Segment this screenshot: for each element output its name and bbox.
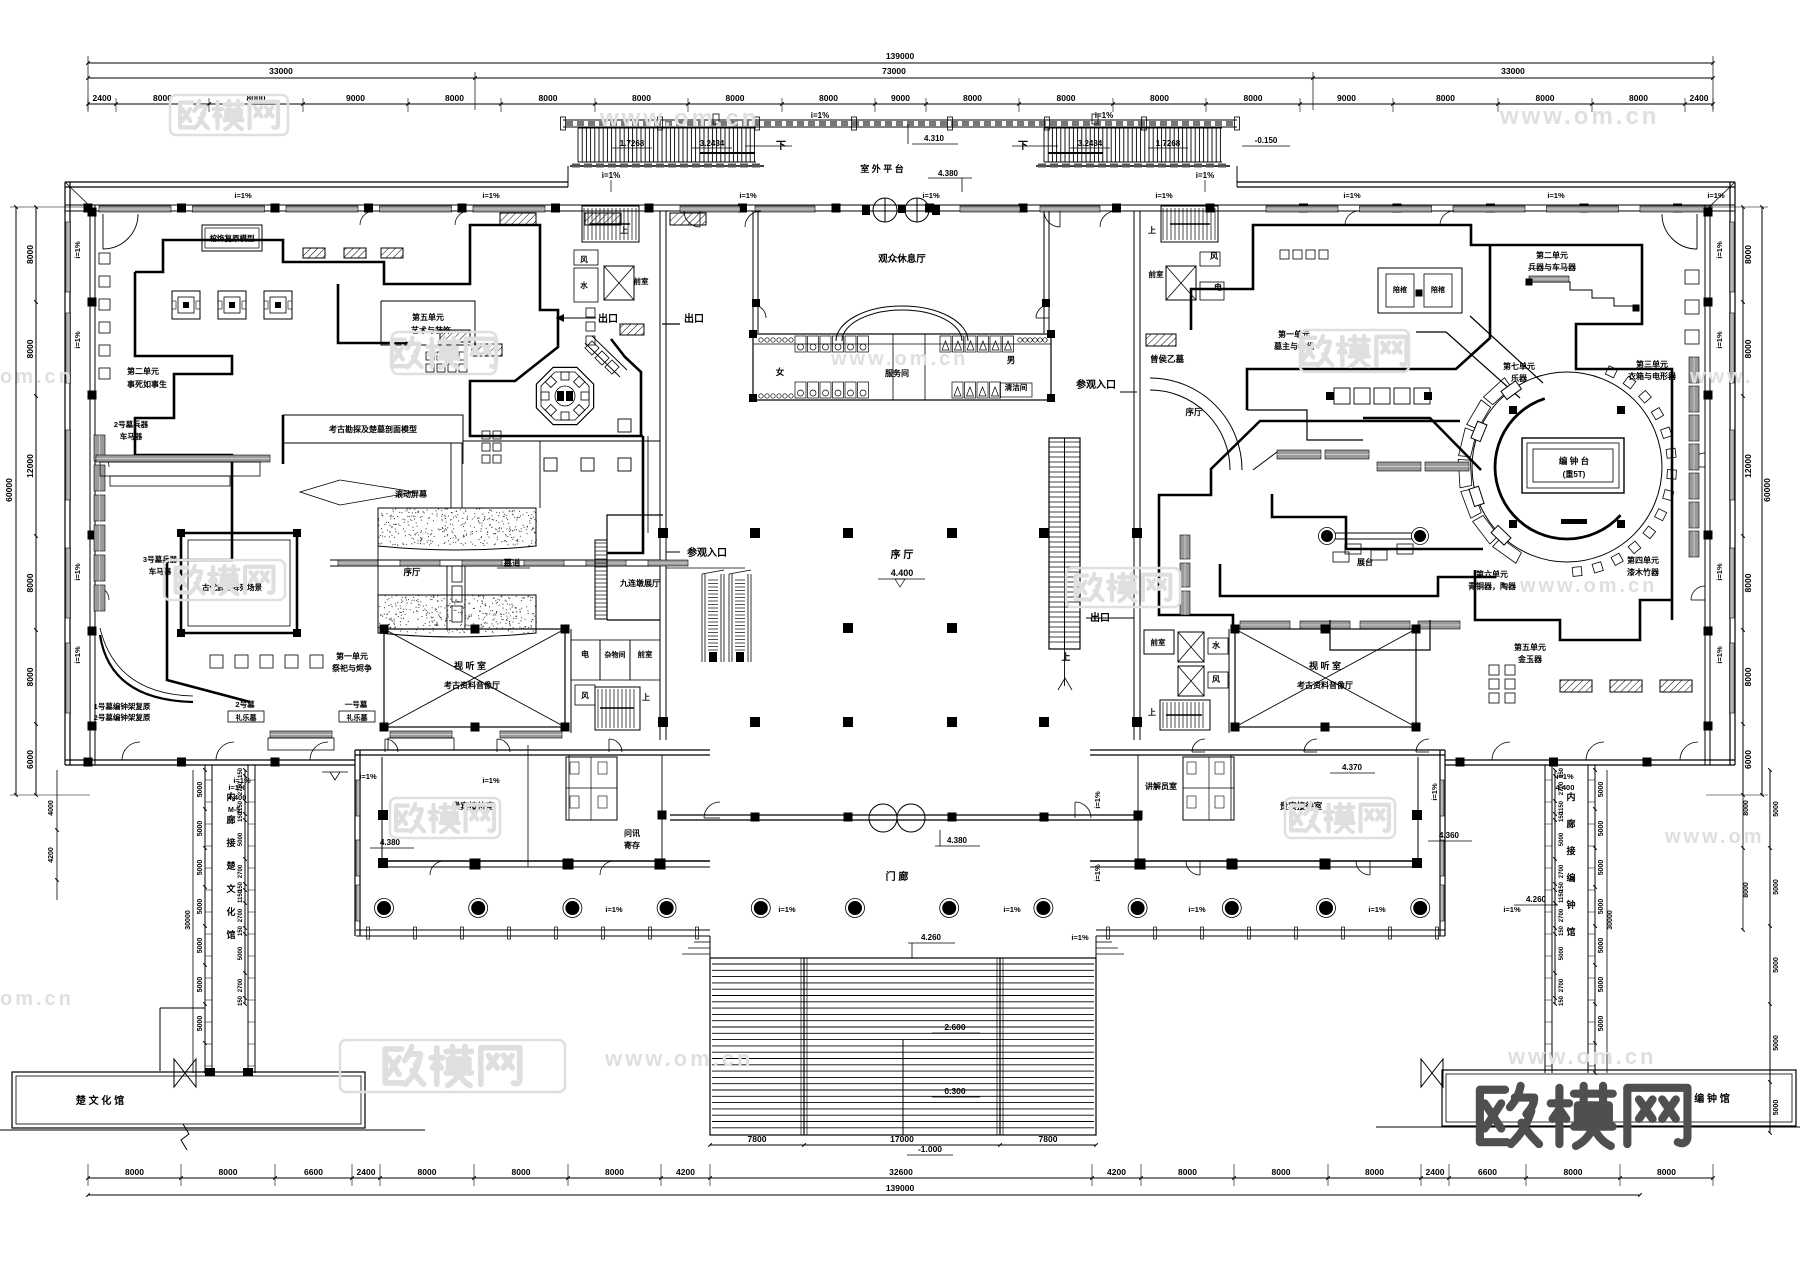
svg-text:om.cn: om.cn — [0, 988, 74, 1010]
svg-text:5000: 5000 — [1598, 938, 1605, 954]
svg-text:8000: 8000 — [445, 93, 464, 103]
svg-text:i=1%: i=1% — [1003, 905, 1021, 914]
svg-text:2700: 2700 — [238, 978, 244, 992]
svg-text:i=1%: i=1% — [1093, 791, 1102, 809]
svg-text:i=1%: i=1% — [234, 191, 252, 200]
svg-text:2400: 2400 — [93, 93, 112, 103]
svg-text:i=1%: i=1% — [1071, 933, 1089, 942]
svg-text:5000: 5000 — [1598, 860, 1605, 876]
svg-text:编 钟 台: 编 钟 台 — [1559, 456, 1590, 466]
svg-text:5000: 5000 — [238, 946, 244, 960]
svg-text:www.om.cn: www.om.cn — [1499, 103, 1659, 130]
svg-text:车马器: 车马器 — [120, 431, 143, 441]
svg-text:视 听 室: 视 听 室 — [454, 660, 486, 671]
svg-text:馆: 馆 — [1566, 926, 1575, 937]
svg-text:第五单元: 第五单元 — [412, 312, 444, 322]
svg-text:i=1%: i=1% — [1715, 241, 1724, 259]
svg-text:金玉器: 金玉器 — [1517, 654, 1543, 664]
svg-text:寄存: 寄存 — [624, 840, 640, 850]
svg-text:2700: 2700 — [1559, 978, 1565, 992]
svg-text:i=1%: i=1% — [1715, 646, 1724, 664]
svg-text:电: 电 — [581, 649, 589, 659]
svg-text:前室: 前室 — [1151, 637, 1167, 647]
svg-text:一号墓: 一号墓 — [345, 699, 368, 709]
svg-text:考古资料音像厅: 考古资料音像厅 — [444, 680, 500, 690]
svg-text:139000: 139000 — [886, 51, 915, 61]
svg-text:i=1%: i=1% — [1556, 772, 1574, 781]
svg-text:4.360: 4.360 — [1439, 831, 1460, 840]
svg-text:内: 内 — [1566, 791, 1575, 802]
svg-text:9000: 9000 — [891, 93, 910, 103]
svg-text:兵器与车马器: 兵器与车马器 — [1528, 262, 1577, 272]
svg-text:8000: 8000 — [1743, 245, 1753, 264]
svg-text:上: 上 — [1148, 707, 1156, 717]
svg-text:8000: 8000 — [1536, 93, 1555, 103]
svg-text:5000: 5000 — [1598, 899, 1605, 915]
svg-text:i=1%: i=1% — [1715, 331, 1724, 349]
svg-text:8000: 8000 — [1743, 800, 1750, 816]
svg-text:水: 水 — [580, 280, 588, 290]
svg-text:接: 接 — [1566, 845, 1575, 856]
svg-text:1号墓编钟架复原: 1号墓编钟架复原 — [94, 701, 151, 711]
svg-text:风: 风 — [1210, 252, 1218, 261]
svg-text:i=1%: i=1% — [73, 241, 82, 259]
svg-text:馆: 馆 — [226, 929, 235, 940]
svg-text:5000: 5000 — [197, 782, 204, 798]
svg-text:www.: www. — [1689, 366, 1753, 388]
svg-text:i=1%: i=1% — [778, 905, 796, 914]
svg-text:60000: 60000 — [4, 478, 14, 502]
svg-text:4.400: 4.400 — [1556, 783, 1575, 792]
svg-text:33000: 33000 — [269, 66, 293, 76]
svg-text:1.7268: 1.7268 — [620, 139, 645, 148]
svg-text:i=1%: i=1% — [482, 191, 500, 200]
svg-text:钟: 钟 — [1566, 899, 1575, 910]
svg-text:棺饰复原模型: 棺饰复原模型 — [210, 233, 255, 243]
svg-text:4.400: 4.400 — [228, 793, 247, 802]
svg-text:8000: 8000 — [512, 1167, 531, 1177]
svg-text:5000: 5000 — [1559, 946, 1565, 960]
svg-text:第二单元: 第二单元 — [127, 366, 159, 376]
svg-text:i=1%: i=1% — [811, 111, 829, 120]
svg-text:om.cn: om.cn — [0, 366, 74, 388]
svg-text:接: 接 — [226, 837, 235, 848]
svg-text:(重5T): (重5T) — [1563, 469, 1586, 479]
svg-text:8000: 8000 — [1564, 1167, 1583, 1177]
svg-text:i=1%: i=1% — [1430, 783, 1439, 801]
svg-text:上: 上 — [642, 692, 650, 702]
svg-text:8000: 8000 — [1743, 882, 1750, 898]
svg-text:清洁间: 清洁间 — [1005, 382, 1028, 392]
svg-text:6000: 6000 — [1743, 750, 1753, 769]
svg-text:5000: 5000 — [197, 899, 204, 915]
svg-text:礼乐墓: 礼乐墓 — [236, 713, 258, 722]
svg-text:室 外 平 台: 室 外 平 台 — [860, 163, 904, 174]
svg-text:i=1%: i=1% — [1095, 111, 1113, 120]
svg-text:1150: 1150 — [1559, 889, 1565, 903]
svg-text:8000: 8000 — [25, 573, 35, 592]
svg-text:150: 150 — [1559, 995, 1565, 1006]
svg-text:上: 上 — [1061, 651, 1070, 662]
svg-text:2.600: 2.600 — [944, 1022, 966, 1032]
svg-text:8000: 8000 — [1178, 1167, 1197, 1177]
svg-text:第七单元: 第七单元 — [1503, 361, 1535, 371]
svg-text:73000: 73000 — [882, 66, 906, 76]
svg-text:30000: 30000 — [185, 910, 192, 930]
svg-text:5000: 5000 — [1773, 801, 1780, 817]
svg-text:滚动屏幕: 滚动屏幕 — [395, 489, 428, 499]
svg-text:8000: 8000 — [1629, 93, 1648, 103]
svg-text:60000: 60000 — [1762, 478, 1772, 502]
svg-text:第四单元: 第四单元 — [1627, 555, 1659, 565]
svg-text:8000: 8000 — [25, 667, 35, 686]
svg-text:2400: 2400 — [1426, 1167, 1445, 1177]
svg-text:1150: 1150 — [238, 889, 244, 903]
svg-text:8000: 8000 — [1057, 93, 1076, 103]
svg-text:8000: 8000 — [1244, 93, 1263, 103]
svg-text:男: 男 — [1007, 355, 1016, 365]
svg-text:5000: 5000 — [1598, 977, 1605, 993]
svg-text:9000: 9000 — [346, 93, 365, 103]
svg-text:8000: 8000 — [963, 93, 982, 103]
svg-text:i=1%: i=1% — [482, 776, 500, 785]
svg-text:参观入口: 参观入口 — [1076, 378, 1116, 391]
svg-text:考古资料音像厅: 考古资料音像厅 — [1297, 680, 1353, 690]
svg-text:12000: 12000 — [25, 454, 35, 478]
svg-text:8000: 8000 — [1657, 1167, 1676, 1177]
svg-text:i=1%: i=1% — [1093, 864, 1102, 882]
svg-text:9000: 9000 — [1337, 93, 1356, 103]
svg-text:i=1%: i=1% — [73, 646, 82, 664]
svg-text:8000: 8000 — [605, 1167, 624, 1177]
svg-text:讲解员室: 讲解员室 — [1145, 781, 1177, 791]
svg-text:杂物间: 杂物间 — [605, 650, 626, 659]
svg-text:2700: 2700 — [1559, 908, 1565, 922]
svg-text:i=1%: i=1% — [1196, 171, 1214, 180]
svg-text:2700: 2700 — [1559, 864, 1565, 878]
svg-text:8000: 8000 — [125, 1167, 144, 1177]
svg-text:30000: 30000 — [1607, 910, 1614, 930]
svg-text:第一单元: 第一单元 — [336, 651, 368, 661]
svg-text:8000: 8000 — [418, 1167, 437, 1177]
svg-text:150: 150 — [1559, 811, 1565, 822]
svg-text:上: 上 — [620, 225, 628, 235]
svg-text:上: 上 — [1148, 225, 1156, 235]
svg-text:廊: 廊 — [226, 814, 235, 825]
svg-text:陪棺: 陪棺 — [1431, 285, 1445, 294]
svg-text:4.380: 4.380 — [938, 169, 959, 178]
svg-text:问讯: 问讯 — [624, 828, 640, 838]
svg-text:0.300: 0.300 — [944, 1086, 966, 1096]
svg-text:观众休息厅: 观众休息厅 — [877, 253, 926, 265]
svg-text:2700: 2700 — [238, 864, 244, 878]
svg-text:风: 风 — [1212, 675, 1220, 684]
svg-text:5000: 5000 — [1598, 821, 1605, 837]
svg-text:8000: 8000 — [539, 93, 558, 103]
svg-text:5000: 5000 — [1773, 1100, 1780, 1116]
svg-text:风: 风 — [581, 691, 589, 700]
svg-text:3.2434: 3.2434 — [700, 139, 725, 148]
svg-text:i=1%: i=1% — [605, 905, 623, 914]
svg-text:4.380: 4.380 — [947, 836, 968, 845]
svg-text:2号墓兵器: 2号墓兵器 — [114, 419, 149, 429]
svg-text:4.370: 4.370 — [1342, 763, 1363, 772]
svg-text:九连墩展厅: 九连墩展厅 — [619, 578, 660, 588]
svg-text:-1.000: -1.000 — [918, 1144, 942, 1154]
svg-text:5000: 5000 — [1773, 957, 1780, 973]
svg-text:参观入口: 参观入口 — [687, 546, 727, 559]
svg-text:8000: 8000 — [1743, 667, 1753, 686]
svg-text:第二单元: 第二单元 — [1536, 250, 1568, 260]
svg-text:2700: 2700 — [238, 908, 244, 922]
svg-text:陪棺: 陪棺 — [1393, 285, 1407, 294]
svg-text:楚: 楚 — [225, 860, 236, 871]
svg-text:5000: 5000 — [197, 860, 204, 876]
svg-text:5000: 5000 — [1598, 782, 1605, 798]
svg-text:i=1%: i=1% — [228, 783, 246, 792]
svg-text:i=1%: i=1% — [1547, 191, 1565, 200]
svg-text:4000: 4000 — [48, 800, 55, 816]
svg-text:5000: 5000 — [1559, 832, 1565, 846]
svg-text:www.om.cn: www.om.cn — [1519, 575, 1657, 597]
svg-text:出口: 出口 — [598, 312, 618, 325]
svg-text:5000: 5000 — [238, 832, 244, 846]
svg-text:i=1%: i=1% — [602, 171, 620, 180]
svg-text:8000: 8000 — [1743, 573, 1753, 592]
svg-text:门 廊: 门 廊 — [886, 870, 909, 883]
svg-text:2号墓: 2号墓 — [235, 699, 255, 709]
svg-text:文: 文 — [225, 883, 236, 894]
svg-text:女: 女 — [776, 367, 785, 377]
svg-text:2400: 2400 — [1690, 93, 1709, 103]
svg-text:5000: 5000 — [197, 977, 204, 993]
svg-text:前室: 前室 — [1149, 269, 1165, 279]
svg-text:出口: 出口 — [684, 312, 704, 325]
svg-text:4.380: 4.380 — [380, 838, 401, 847]
svg-text:4.400: 4.400 — [891, 568, 914, 578]
svg-text:4.310: 4.310 — [924, 134, 945, 143]
svg-text:曾侯乙墓: 曾侯乙墓 — [1150, 354, 1185, 364]
svg-text:事死如事生: 事死如事生 — [127, 379, 167, 389]
svg-text:8000: 8000 — [1150, 93, 1169, 103]
svg-text:风: 风 — [580, 255, 588, 264]
svg-text:4200: 4200 — [48, 847, 55, 863]
svg-text:8000: 8000 — [632, 93, 651, 103]
svg-text:编 钟 馆: 编 钟 馆 — [1694, 1092, 1730, 1105]
svg-text:第三单元: 第三单元 — [1636, 359, 1668, 369]
svg-text:8000: 8000 — [1365, 1167, 1384, 1177]
svg-text:i=1%: i=1% — [1155, 191, 1173, 200]
svg-text:8000: 8000 — [819, 93, 838, 103]
svg-text:1150: 1150 — [1559, 800, 1565, 814]
svg-text:第五单元: 第五单元 — [1514, 642, 1546, 652]
svg-text:5000: 5000 — [1598, 1016, 1605, 1032]
svg-text:M-5: M-5 — [228, 807, 240, 814]
svg-text:8000: 8000 — [1272, 1167, 1291, 1177]
svg-text:8000: 8000 — [219, 1167, 238, 1177]
svg-text:i=1%: i=1% — [922, 191, 940, 200]
svg-text:150: 150 — [238, 925, 244, 936]
svg-text:序 厅: 序 厅 — [891, 548, 914, 561]
svg-text:i=1%: i=1% — [1707, 191, 1725, 200]
svg-text:电: 电 — [1214, 282, 1222, 292]
svg-text:第六单元: 第六单元 — [1476, 569, 1508, 579]
svg-text:www.om.cn: www.om.cn — [604, 1046, 753, 1071]
svg-text:4.260: 4.260 — [1526, 895, 1547, 904]
svg-text:8000: 8000 — [25, 245, 35, 264]
svg-text:4200: 4200 — [676, 1167, 695, 1177]
svg-text:i=1%: i=1% — [73, 331, 82, 349]
svg-text:前室: 前室 — [638, 649, 653, 659]
svg-text:www.om.cn: www.om.cn — [830, 348, 968, 370]
svg-text:150: 150 — [238, 995, 244, 1006]
svg-text:展台: 展台 — [1356, 557, 1373, 567]
svg-text:6600: 6600 — [1478, 1167, 1497, 1177]
svg-text:i=1%: i=1% — [73, 563, 82, 581]
svg-text:5000: 5000 — [1773, 879, 1780, 895]
svg-text:4.260: 4.260 — [921, 933, 942, 942]
svg-text:150: 150 — [1559, 925, 1565, 936]
svg-text:5000: 5000 — [197, 1016, 204, 1032]
svg-text:3.2434: 3.2434 — [1078, 139, 1103, 148]
svg-text:水: 水 — [1211, 640, 1221, 650]
svg-text:i=1%: i=1% — [1368, 905, 1386, 914]
svg-text:8000: 8000 — [25, 339, 35, 358]
svg-text:化: 化 — [226, 906, 235, 917]
svg-text:www.om: www.om — [1664, 826, 1764, 848]
svg-text:12000: 12000 — [1743, 454, 1753, 478]
svg-text:序厅: 序厅 — [402, 567, 421, 577]
svg-text:8000: 8000 — [726, 93, 745, 103]
svg-text:2400: 2400 — [357, 1167, 376, 1177]
svg-text:6000: 6000 — [25, 750, 35, 769]
svg-text:衣箱与电形器: 衣箱与电形器 — [1628, 371, 1677, 381]
svg-text:i=1%: i=1% — [1715, 563, 1724, 581]
svg-text:32600: 32600 — [889, 1167, 913, 1177]
svg-text:i=1%: i=1% — [359, 772, 377, 781]
svg-text:-0.150: -0.150 — [1255, 136, 1278, 145]
svg-text:33000: 33000 — [1501, 66, 1525, 76]
svg-text:1.7268: 1.7268 — [1156, 139, 1181, 148]
svg-text:廊: 廊 — [1566, 818, 1575, 829]
svg-text:5000: 5000 — [1773, 1035, 1780, 1051]
svg-text:i=1%: i=1% — [1503, 905, 1521, 914]
svg-text:视 听 室: 视 听 室 — [1309, 660, 1341, 671]
svg-text:www.om.cn: www.om.cn — [599, 105, 759, 132]
svg-text:序厅: 序厅 — [1184, 407, 1203, 417]
svg-text:车马器: 车马器 — [149, 566, 172, 576]
svg-text:楚 文 化 馆: 楚 文 化 馆 — [75, 1094, 124, 1107]
svg-text:www.om.cn: www.om.cn — [1507, 1044, 1656, 1069]
svg-text:8000: 8000 — [1436, 93, 1455, 103]
svg-text:139000: 139000 — [886, 1183, 915, 1193]
svg-text:5000: 5000 — [197, 938, 204, 954]
svg-text:考古勘探及楚墓剖面模型: 考古勘探及楚墓剖面模型 — [329, 424, 417, 434]
svg-text:i=1%: i=1% — [1188, 905, 1206, 914]
svg-text:礼乐墓: 礼乐墓 — [347, 713, 369, 722]
svg-text:i=1%: i=1% — [739, 191, 757, 200]
svg-text:2号墓编钟架复原: 2号墓编钟架复原 — [94, 712, 151, 722]
svg-text:4200: 4200 — [1107, 1167, 1126, 1177]
svg-text:5000: 5000 — [197, 821, 204, 837]
svg-text:6600: 6600 — [304, 1167, 323, 1177]
svg-text:祭祀与烬争: 祭祀与烬争 — [332, 663, 372, 673]
svg-text:i=1%: i=1% — [1343, 191, 1361, 200]
svg-text:编: 编 — [1566, 872, 1575, 883]
svg-text:8000: 8000 — [1743, 339, 1753, 358]
svg-text:前室: 前室 — [634, 276, 649, 286]
